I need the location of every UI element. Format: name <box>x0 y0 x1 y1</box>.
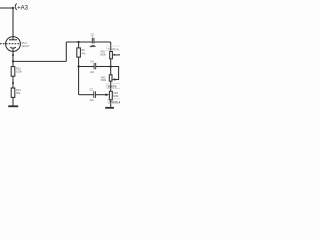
wire: bass rheostat loop <box>111 67 119 80</box>
wire: slope node run to bass node <box>79 66 94 68</box>
svg-text:100k: 100k <box>16 70 22 74</box>
node: treble-bass junction <box>110 65 112 67</box>
wire: C2 lead label stub <box>91 36 93 38</box>
wire: middle pot to ground <box>110 100 112 107</box>
node: slope-C4 junction <box>77 65 79 67</box>
tube plate bar <box>9 39 17 41</box>
tube V5 envelope <box>6 37 21 52</box>
label TREBLE callout <box>107 46 123 51</box>
wire: to middle cap <box>79 94 94 96</box>
svg-text:BASS: BASS <box>108 85 118 89</box>
wire: riser up to tone rail <box>65 42 67 61</box>
potentiometer VR3 middle <box>109 91 112 100</box>
svg-text:C2: C2 <box>91 33 95 37</box>
svg-text:600k: 600k <box>101 79 107 82</box>
label MIDDLE callout <box>108 99 123 104</box>
node: A3 junction <box>12 7 14 9</box>
resistor R6 slope <box>78 42 80 48</box>
svg-text:47k: 47k <box>81 51 86 55</box>
label BASS callout <box>107 84 123 89</box>
wire: tone stack input rail <box>66 41 92 43</box>
svg-text:+A3: +A3 <box>17 6 29 12</box>
wire: treble bottom to bass node <box>110 59 112 75</box>
svg-text:TREBLE: TREBLE <box>107 47 118 51</box>
tube grid (dashed) <box>0 43 19 45</box>
resistor R12 <box>12 61 14 66</box>
label C2 value blob <box>89 45 95 47</box>
node: cathode junction <box>12 60 14 62</box>
svg-text:56k: 56k <box>16 91 21 95</box>
svg-text:22n: 22n <box>90 71 95 74</box>
wire: rail to treble pot <box>94 41 111 43</box>
connector arc +A3 <box>15 4 17 10</box>
svg-text:MIDDLE: MIDDLE <box>109 100 120 104</box>
capacitor C5 plates <box>93 91 95 98</box>
potentiometer VR1 treble <box>110 52 113 59</box>
svg-text:C4: C4 <box>90 60 94 64</box>
svg-text:22n: 22n <box>90 99 95 102</box>
potentiometer VR2 bass <box>109 75 112 81</box>
svg-text:600k: 600k <box>113 95 119 98</box>
resistor R13 <box>11 88 15 97</box>
capacitor C4 plates <box>93 63 95 69</box>
node: divider dot <box>12 82 14 84</box>
wire: cathode to tone stack horizontal <box>13 60 66 62</box>
wire: slope node down leg <box>78 67 80 95</box>
svg-text:12AX7: 12AX7 <box>21 44 30 48</box>
capacitor C2 plates <box>91 38 93 44</box>
svg-text:600k: 600k <box>100 53 106 56</box>
wire: bass to middle pot <box>110 81 112 91</box>
tube cathode <box>10 46 16 49</box>
wire: cathode lead down <box>12 49 14 62</box>
wire: plate lead down to tube <box>12 8 14 40</box>
node: cathode lead dot <box>12 54 14 56</box>
svg-text:C5: C5 <box>89 87 93 91</box>
node: rail R6 junction <box>77 41 79 43</box>
wire: cap to middle wiper <box>95 94 106 96</box>
ground left <box>8 105 18 107</box>
ground right <box>105 107 114 109</box>
wire: +A3 supply rail top <box>0 7 13 9</box>
